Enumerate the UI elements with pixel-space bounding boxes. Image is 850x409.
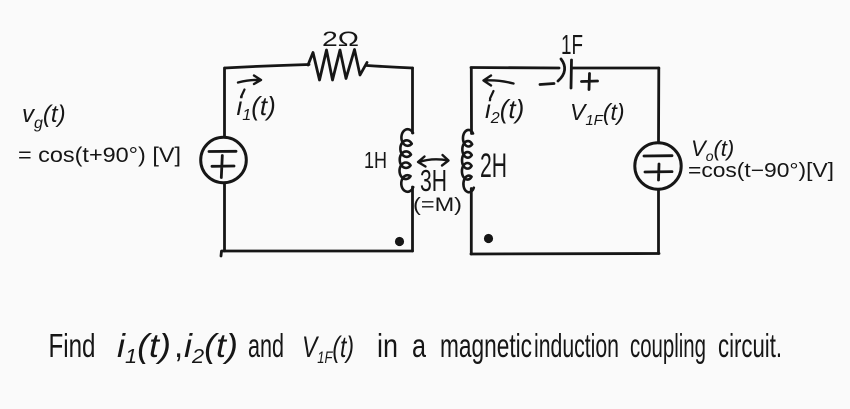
label 2ohm value <box>322 28 359 51</box>
wire right-loop bottom <box>471 252 659 255</box>
label 1H value <box>364 147 387 173</box>
coupling arrow between coils <box>418 155 449 167</box>
label V0 equation <box>688 160 834 182</box>
wire left-loop top right segment <box>367 66 413 69</box>
wire right-loop top right segment <box>573 67 659 70</box>
voltage source vg circle <box>201 137 247 183</box>
resistor R 2ohm zigzag <box>308 50 367 81</box>
wire right-loop left upper <box>470 68 473 134</box>
svg-text:(=M): (=M) <box>413 195 462 216</box>
voltage source V0 plus sign <box>645 164 672 180</box>
label V0(t) <box>691 136 734 164</box>
wire right-loop top left segment <box>471 66 559 69</box>
polarity dot right coil <box>484 234 493 243</box>
voltage source V0 circle <box>635 143 681 189</box>
wire right-loop right lower <box>657 190 660 254</box>
caption Find i1(t), i2(t) and V1F(t) in a magnetic induction coupling circuit <box>49 327 783 368</box>
voltage source vg plus sign <box>212 156 234 178</box>
inductor L2 2H coil <box>462 130 474 192</box>
wire right-loop right upper <box>657 68 660 143</box>
label 1F value <box>561 29 583 60</box>
svg-text:2H: 2H <box>480 147 507 185</box>
svg-text:=cos(t−90°)[V]: =cos(t−90°)[V] <box>688 160 834 182</box>
voltage source vg minus bar <box>209 150 236 153</box>
polarity dot left coil <box>395 237 404 246</box>
svg-text:induction: induction <box>534 327 619 364</box>
wire left-loop bottom <box>221 251 413 256</box>
svg-text:and: and <box>248 327 284 364</box>
svg-text:3H: 3H <box>420 163 447 198</box>
wire left-loop left lower <box>223 183 226 251</box>
wire left-loop left upper <box>223 68 226 137</box>
svg-text:Find: Find <box>49 327 96 364</box>
capacitor C 1F right plate <box>570 60 573 88</box>
svg-text:in: in <box>377 327 398 364</box>
svg-text:magnetic: magnetic <box>440 327 532 364</box>
label vg equation <box>18 144 181 167</box>
svg-text:coupling: coupling <box>630 327 706 364</box>
svg-text:1F: 1F <box>561 29 583 60</box>
capacitor plus polarity <box>582 74 598 90</box>
svg-text:a: a <box>412 327 426 364</box>
capacitor C 1F left plate <box>558 59 565 81</box>
wire left-loop right lower <box>411 187 414 251</box>
svg-text:circuit.: circuit. <box>718 327 782 364</box>
svg-text:2Ω: 2Ω <box>322 28 359 51</box>
label (=M) <box>413 195 462 216</box>
voltage source V0 minus bar <box>644 154 672 157</box>
label i2(t) <box>485 91 524 127</box>
label vg(t) <box>22 101 66 132</box>
svg-text:= cos(t+90°) [V]: = cos(t+90°) [V] <box>18 144 181 167</box>
arrow i2 direction <box>484 76 514 86</box>
label 2H value <box>480 147 507 185</box>
svg-text:vg(t): vg(t) <box>22 101 66 132</box>
arrow i1 direction <box>238 76 261 85</box>
wire left-loop right upper <box>411 68 414 133</box>
svg-text:,: , <box>174 327 183 364</box>
label 3H mutual value <box>420 163 447 198</box>
inductor L1 1H coil <box>400 129 414 192</box>
label V1F(t) <box>570 99 625 129</box>
svg-text:1H: 1H <box>364 147 387 173</box>
capacitor minus polarity <box>540 84 554 85</box>
label i1(t) <box>237 90 276 125</box>
wire right-loop left lower <box>470 189 473 255</box>
wire left-loop top left segment <box>225 65 309 69</box>
